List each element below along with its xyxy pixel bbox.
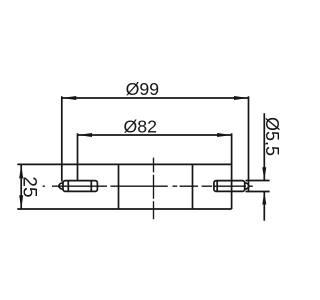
body bottom edge (17, 208, 231, 210)
svg-text:Ø82: Ø82 (124, 117, 157, 137)
arrowhead Ø82 left (78, 133, 93, 137)
svg-text:25: 25 (19, 176, 40, 197)
body division line left (118, 164, 120, 209)
svg-text:Ø5,5: Ø5,5 (262, 117, 282, 156)
arrowhead Ø99 right (234, 96, 249, 100)
dimension Ø99 right extension line (248, 96, 250, 191)
arrowhead Ø99 left (62, 96, 77, 100)
svg-text:Ø99: Ø99 (126, 79, 159, 99)
dimension Ø99 line (62, 97, 249, 99)
dimension Ø99 left extension line (61, 96, 63, 181)
dimension Ø5,5 top extension line (246, 180, 270, 182)
arrowhead Ø5,5 bottom (262, 192, 266, 205)
arrowhead 25 top (19, 164, 23, 178)
dimension Ø5,5 bottom extension line (246, 191, 270, 193)
left pin dome nose (59, 183, 63, 190)
right pin dome nose (245, 183, 249, 190)
dimension 25 line (20, 164, 22, 209)
body right edge / extension line of dim Ø82 right (231, 133, 233, 209)
dimension Ø5,5 upper line (263, 113, 265, 180)
dimension Ø82 line (78, 134, 232, 136)
body top edge (17, 163, 231, 165)
dimension Ø5,5 lower line (263, 192, 265, 221)
arrowhead 25 bottom (19, 195, 23, 209)
left pin cap line (90, 181, 92, 192)
vertical centerline (chain) (153, 158, 155, 220)
dimension Ø82 left extension line (77, 133, 79, 180)
horizontal centerline (dash-dot chain) (43, 185, 253, 187)
left pin body (63, 181, 97, 192)
right pin cap line (216, 181, 218, 192)
body division line right (192, 164, 194, 209)
arrowhead Ø5,5 top (262, 167, 266, 180)
left pin collar line (67, 181, 69, 192)
arrowhead Ø82 right (217, 133, 232, 137)
right pin body (214, 181, 245, 192)
